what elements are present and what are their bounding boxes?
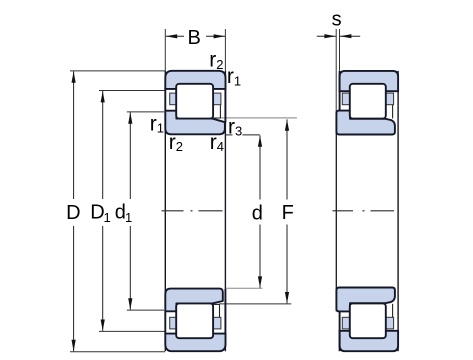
- svg-text:F: F: [282, 202, 294, 224]
- wire cage rim line right view top: [392, 105, 394, 119]
- dimension F extension bottom: [213, 303, 220, 305]
- dimension s: [335, 29, 337, 111]
- dimension d1 line: [129, 112, 131, 199]
- wire cage rim line right view bottom: [392, 304, 394, 318]
- wire section left edge gap segment: [164, 88, 166, 111]
- svg-text:B: B: [188, 27, 201, 49]
- dimension B: [166, 35, 225, 37]
- centerline right view: [333, 210, 395, 212]
- wire right view outer ring left face segment: [339, 71, 341, 111]
- dimension F extension top (gray): [213, 117, 221, 119]
- wire B extension line right: [224, 29, 226, 71]
- dimension F line: [286, 119, 288, 199]
- outer ring top: [165, 71, 225, 89]
- dimension D1 extension top: [99, 90, 165, 92]
- dimension d extension bottom: [226, 287, 263, 289]
- wire cage rim line top section: [219, 105, 221, 118]
- cage bar left right view: [342, 93, 350, 105]
- dimension D extension bottom: [70, 351, 165, 353]
- dimension D line: [73, 71, 75, 199]
- centerline left view: [162, 210, 223, 212]
- wire left view outer silhouette right: [224, 71, 226, 351]
- dimension d line: [259, 135, 261, 199]
- dimension d1 extension top: [127, 111, 164, 113]
- svg-text:D: D: [66, 202, 80, 224]
- wire section right edge gap segment bottom: [224, 289, 226, 334]
- wire left view outer silhouette left: [164, 71, 166, 351]
- dimension D extension top: [70, 70, 165, 72]
- inner ring bottom right view: [336, 288, 395, 312]
- roller bottom right view: [350, 303, 386, 338]
- cage bar left right view bottom: [342, 317, 350, 329]
- outer ring bottom right view: [340, 331, 399, 351]
- svg-text:s: s: [332, 9, 342, 31]
- wire right view outer ring left face segment bottom: [339, 311, 341, 351]
- dimension d extension top (with gap for r3 label): [225, 134, 232, 136]
- roller top: [176, 84, 213, 119]
- wire right view outer ring silhouette right: [397, 71, 399, 351]
- inner ring top (flange left, recess right): [165, 111, 225, 135]
- wire right view inner ring silhouette left: [335, 111, 337, 312]
- dimension d1 extension bottom: [127, 309, 164, 311]
- outer ring bottom: [165, 334, 225, 352]
- cage bar right bottom: [213, 317, 221, 329]
- inner ring bottom: [165, 289, 223, 312]
- wire B extension line left: [164, 29, 166, 71]
- wire section left edge gap segment bottom: [164, 311, 166, 334]
- outer ring top right view: [340, 71, 399, 91]
- wire cage rim line bottom section: [219, 304, 221, 317]
- wire section right edge gap segment: [224, 89, 226, 123]
- cage bar right right view bottom: [386, 317, 394, 329]
- dimension D1 line: [102, 91, 104, 199]
- cage bar left bottom: [170, 317, 177, 329]
- dimension D1 extension bottom: [99, 330, 165, 332]
- inner ring top right view (shifted left by s, lip right): [336, 111, 395, 135]
- svg-text:d: d: [252, 202, 263, 224]
- roller bottom: [176, 303, 213, 338]
- roller top right view: [350, 84, 386, 119]
- cage bar left: [170, 93, 177, 105]
- cage bar right: [213, 93, 221, 105]
- cage bar right right view: [386, 93, 394, 105]
